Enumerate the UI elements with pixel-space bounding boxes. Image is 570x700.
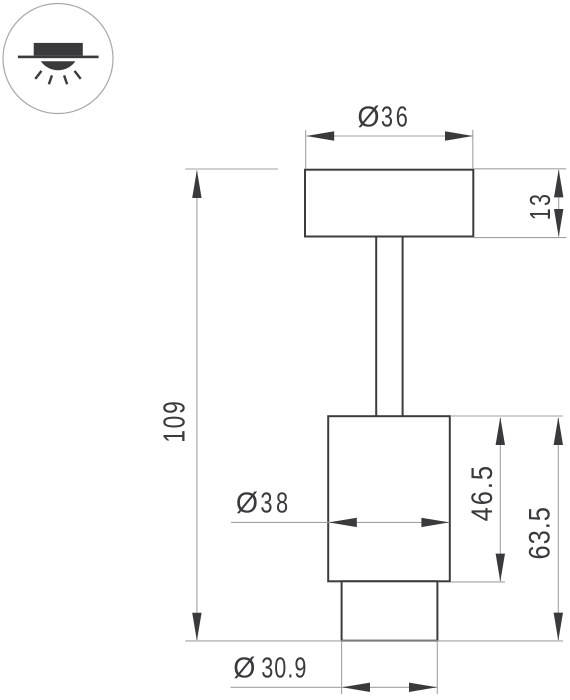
dim line 63.5 bbox=[557, 418, 559, 640]
dim line 13 bbox=[558, 170, 560, 237]
arrow 46.5 down bbox=[496, 554, 505, 582]
svg-text:46.5: 46.5 bbox=[465, 466, 498, 522]
dim line 46.5 bbox=[499, 418, 501, 581]
icon ray 3 bbox=[64, 75, 67, 84]
svg-text:Ø: Ø bbox=[233, 653, 255, 685]
arrow O36 left bbox=[306, 131, 334, 140]
arrow 109 up bbox=[192, 170, 201, 198]
icon ray 2 bbox=[49, 75, 52, 84]
dim ext line 13 top bbox=[474, 168, 566, 170]
dim ext line 46.5 bottom bbox=[451, 581, 506, 583]
icon ceiling bar bbox=[18, 56, 99, 59]
svg-text:Ø: Ø bbox=[236, 487, 258, 519]
svg-text:109: 109 bbox=[157, 401, 191, 443]
icon lamp dome bbox=[41, 61, 76, 70]
dim ext line 109 top bbox=[185, 168, 278, 170]
arrow 30.9 left bbox=[342, 683, 370, 692]
arrow O38 left bbox=[329, 518, 357, 527]
dim ext line 13 bottom bbox=[474, 237, 566, 239]
cylinder outline bbox=[342, 581, 438, 640]
dim ext line 30.9 right bbox=[436, 642, 438, 695]
puck outline bbox=[305, 170, 473, 237]
baseline bbox=[185, 640, 563, 642]
arrow O38 right bbox=[421, 518, 449, 527]
dim ext line 30.9 left bbox=[341, 642, 343, 695]
arrow 63.5 up bbox=[554, 417, 563, 445]
arrow 13 down bbox=[554, 209, 563, 237]
arrow 30.9 right bbox=[409, 683, 437, 692]
arrow O36 right bbox=[445, 131, 473, 140]
icon ray 1 bbox=[35, 71, 41, 79]
dim line 30.9 bbox=[231, 686, 438, 688]
dim ext line O36 right bbox=[472, 130, 474, 169]
arrow 13 up bbox=[554, 169, 563, 197]
icon lamp body bbox=[34, 43, 83, 56]
dim ext line 63.5 top bbox=[451, 415, 564, 417]
stem left line bbox=[375, 238, 377, 416]
icon circle bbox=[3, 4, 113, 114]
svg-text:30.9: 30.9 bbox=[261, 653, 306, 685]
dim line O36 bbox=[307, 135, 473, 137]
arrow 63.5 down bbox=[554, 613, 563, 641]
stem right line bbox=[402, 238, 404, 416]
svg-text:63.5: 63.5 bbox=[523, 507, 556, 559]
arrow 46.5 up bbox=[496, 417, 505, 445]
dim line O38 bbox=[231, 521, 449, 523]
svg-text:Ø: Ø bbox=[357, 102, 379, 134]
dim ext line O36 left bbox=[305, 130, 307, 169]
arrow 109 down bbox=[192, 613, 201, 641]
body outline bbox=[328, 416, 450, 581]
dim line 109 bbox=[196, 171, 198, 641]
icon ray 4 bbox=[75, 71, 81, 79]
